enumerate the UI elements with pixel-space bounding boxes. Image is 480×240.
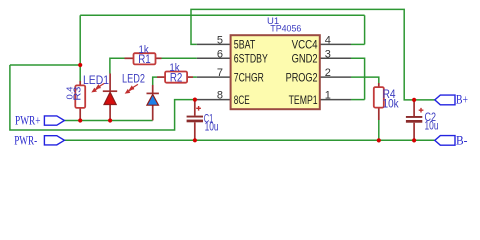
svg-text:8: 8 xyxy=(217,90,223,102)
svg-text:TP4056: TP4056 xyxy=(270,23,301,34)
svg-text:10u: 10u xyxy=(425,118,439,132)
svg-text:R2: R2 xyxy=(170,70,183,84)
svg-text:6: 6 xyxy=(217,48,223,60)
svg-text:TEMP1: TEMP1 xyxy=(289,93,318,107)
svg-text:1: 1 xyxy=(325,90,331,102)
svg-text:B-: B- xyxy=(456,133,468,147)
svg-text:PROG2: PROG2 xyxy=(286,70,318,84)
svg-text:LED1: LED1 xyxy=(83,73,109,87)
svg-text:8CE: 8CE xyxy=(234,93,250,107)
svg-text:5BAT: 5BAT xyxy=(234,38,256,52)
svg-text:6STDBY: 6STDBY xyxy=(234,52,268,66)
svg-text:GND2: GND2 xyxy=(292,52,318,66)
svg-text:VCC4: VCC4 xyxy=(292,38,318,52)
svg-text:PWR-: PWR- xyxy=(14,133,37,147)
svg-text:3: 3 xyxy=(325,48,331,60)
svg-text:2: 2 xyxy=(325,67,331,79)
svg-text:PWR+: PWR+ xyxy=(15,113,41,127)
svg-text:10k: 10k xyxy=(383,97,400,111)
svg-text:0.4: 0.4 xyxy=(65,86,75,99)
svg-text:R1: R1 xyxy=(138,52,151,66)
svg-text:B+: B+ xyxy=(456,93,468,107)
svg-text:LED2: LED2 xyxy=(122,71,145,85)
svg-text:7: 7 xyxy=(217,67,223,79)
svg-text:5: 5 xyxy=(217,34,223,46)
svg-text:4: 4 xyxy=(325,34,331,46)
svg-text:7CHGR: 7CHGR xyxy=(234,70,264,84)
svg-text:10u: 10u xyxy=(205,120,219,134)
